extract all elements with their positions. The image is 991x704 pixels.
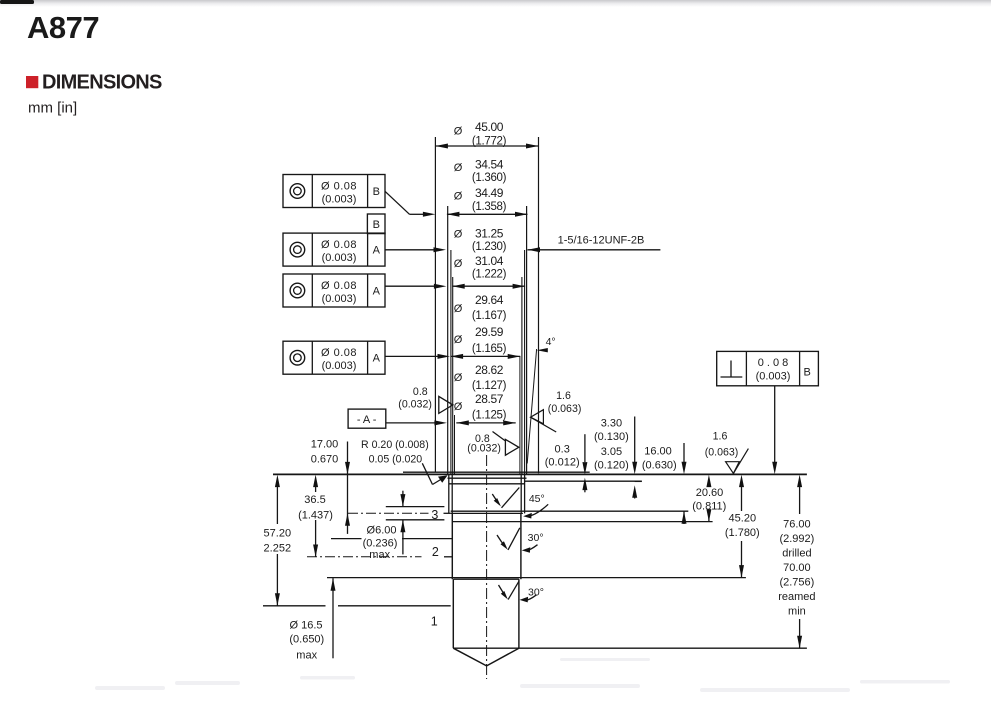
svg-text:(1.165): (1.165) xyxy=(472,343,507,355)
svg-text:Ø: Ø xyxy=(454,334,463,346)
svg-text:Ø 0.08: Ø 0.08 xyxy=(321,347,357,359)
svg-text:76.00: 76.00 xyxy=(783,519,811,531)
svg-text:70.00: 70.00 xyxy=(783,562,811,574)
svg-text:DIMENSIONS: DIMENSIONS xyxy=(42,72,162,94)
svg-text:Ø: Ø xyxy=(454,162,463,174)
svg-text:(1.437): (1.437) xyxy=(298,509,333,521)
svg-text:17.00: 17.00 xyxy=(311,439,339,451)
svg-text:0.670: 0.670 xyxy=(311,454,339,466)
svg-text:A: A xyxy=(373,286,381,298)
svg-text:1: 1 xyxy=(431,614,438,628)
svg-text:reamed: reamed xyxy=(778,591,815,603)
svg-text:3.05: 3.05 xyxy=(601,446,622,458)
svg-text:max: max xyxy=(296,649,317,661)
svg-text:Ø: Ø xyxy=(454,228,463,240)
svg-text:(0.003): (0.003) xyxy=(322,194,357,206)
svg-text:A877: A877 xyxy=(27,10,99,45)
svg-text:(0.003): (0.003) xyxy=(322,360,357,372)
svg-text:34.54: 34.54 xyxy=(475,158,504,172)
svg-text:Ø 0.08: Ø 0.08 xyxy=(321,181,357,193)
svg-text:B: B xyxy=(373,186,380,198)
svg-text:Ø6.00: Ø6.00 xyxy=(367,525,397,537)
svg-text:Ø: Ø xyxy=(454,125,463,137)
svg-text:(0.063): (0.063) xyxy=(705,446,739,458)
svg-text:(1.230): (1.230) xyxy=(472,241,507,253)
svg-text:30°: 30° xyxy=(528,532,544,544)
svg-text:(0.003): (0.003) xyxy=(756,371,791,383)
svg-text:(1.127): (1.127) xyxy=(472,380,507,392)
svg-text:1.6: 1.6 xyxy=(556,390,571,402)
svg-text:R 0.20 (0.008): R 0.20 (0.008) xyxy=(361,439,429,451)
svg-text:28.57: 28.57 xyxy=(475,392,504,406)
svg-text:A: A xyxy=(373,353,381,365)
svg-text:4°: 4° xyxy=(546,336,556,348)
svg-text:(0.120): (0.120) xyxy=(594,459,629,471)
svg-text:B: B xyxy=(373,219,380,231)
svg-text:(2.992): (2.992) xyxy=(779,533,814,545)
svg-text:2.252: 2.252 xyxy=(264,543,292,555)
svg-text:Ø: Ø xyxy=(454,258,463,270)
svg-text:16.00: 16.00 xyxy=(644,445,672,457)
svg-text:(0.236): (0.236) xyxy=(363,538,398,550)
svg-text:Ø 0.08: Ø 0.08 xyxy=(321,239,357,251)
svg-text:drilled: drilled xyxy=(782,548,811,560)
svg-text:(1.360): (1.360) xyxy=(472,172,507,184)
svg-text:(0.012): (0.012) xyxy=(545,457,580,469)
svg-text:max: max xyxy=(369,549,390,561)
svg-text:45.20: 45.20 xyxy=(729,512,757,524)
svg-text:Ø: Ø xyxy=(454,401,463,413)
svg-text:45°: 45° xyxy=(529,493,545,505)
svg-text:30°: 30° xyxy=(528,586,544,598)
svg-text:Ø 0.08: Ø 0.08 xyxy=(321,280,357,292)
svg-text:(1.358): (1.358) xyxy=(472,201,507,213)
svg-text:(2.756): (2.756) xyxy=(779,577,814,589)
svg-text:2: 2 xyxy=(432,545,439,559)
svg-text:min: min xyxy=(788,606,806,618)
svg-text:1-5/16-12UNF-2B: 1-5/16-12UNF-2B xyxy=(558,235,645,247)
svg-text:mm [in]: mm [in] xyxy=(28,100,77,117)
svg-text:29.64: 29.64 xyxy=(475,293,504,307)
svg-text:3: 3 xyxy=(431,508,438,522)
svg-text:57.20: 57.20 xyxy=(264,528,292,540)
svg-text:31.25: 31.25 xyxy=(475,226,504,240)
svg-text:Ø: Ø xyxy=(454,372,463,384)
svg-text:1.6: 1.6 xyxy=(713,431,728,443)
svg-text:(0.063): (0.063) xyxy=(548,403,582,415)
svg-text:(0.003): (0.003) xyxy=(322,252,357,264)
svg-text:34.49: 34.49 xyxy=(475,186,504,200)
svg-text:(1.125): (1.125) xyxy=(472,409,507,421)
svg-text:(0.630): (0.630) xyxy=(642,459,677,471)
svg-text:0.05 (0.020: 0.05 (0.020 xyxy=(369,454,423,466)
svg-text:0 . 0 8: 0 . 0 8 xyxy=(758,357,789,369)
svg-text:(0.032): (0.032) xyxy=(398,399,432,411)
svg-text:45.00: 45.00 xyxy=(475,120,504,134)
svg-text:B: B xyxy=(804,366,811,378)
svg-text:Ø 16.5: Ø 16.5 xyxy=(289,620,322,632)
svg-text:31.04: 31.04 xyxy=(475,254,504,268)
svg-text:(1.167): (1.167) xyxy=(472,310,507,322)
svg-text:(1.222): (1.222) xyxy=(472,268,507,280)
svg-text:3.30: 3.30 xyxy=(601,418,622,430)
svg-text:(0.130): (0.130) xyxy=(594,431,629,443)
svg-text:- A -: - A - xyxy=(357,414,377,426)
svg-text:(1.780): (1.780) xyxy=(725,527,760,539)
svg-text:36.5: 36.5 xyxy=(304,494,325,506)
svg-text:(1.772): (1.772) xyxy=(472,136,507,148)
svg-text:20.60: 20.60 xyxy=(696,487,724,499)
svg-text:(0.650): (0.650) xyxy=(289,633,324,645)
svg-text:(0.032): (0.032) xyxy=(467,443,501,455)
svg-text:(0.003): (0.003) xyxy=(322,293,357,305)
svg-text:28.62: 28.62 xyxy=(475,363,504,377)
svg-text:29.59: 29.59 xyxy=(475,325,504,339)
svg-text:A: A xyxy=(373,245,381,257)
svg-text:Ø: Ø xyxy=(454,191,463,203)
svg-text:Ø: Ø xyxy=(454,303,463,315)
svg-text:0.8: 0.8 xyxy=(413,386,428,398)
svg-text:0.3: 0.3 xyxy=(555,444,570,456)
